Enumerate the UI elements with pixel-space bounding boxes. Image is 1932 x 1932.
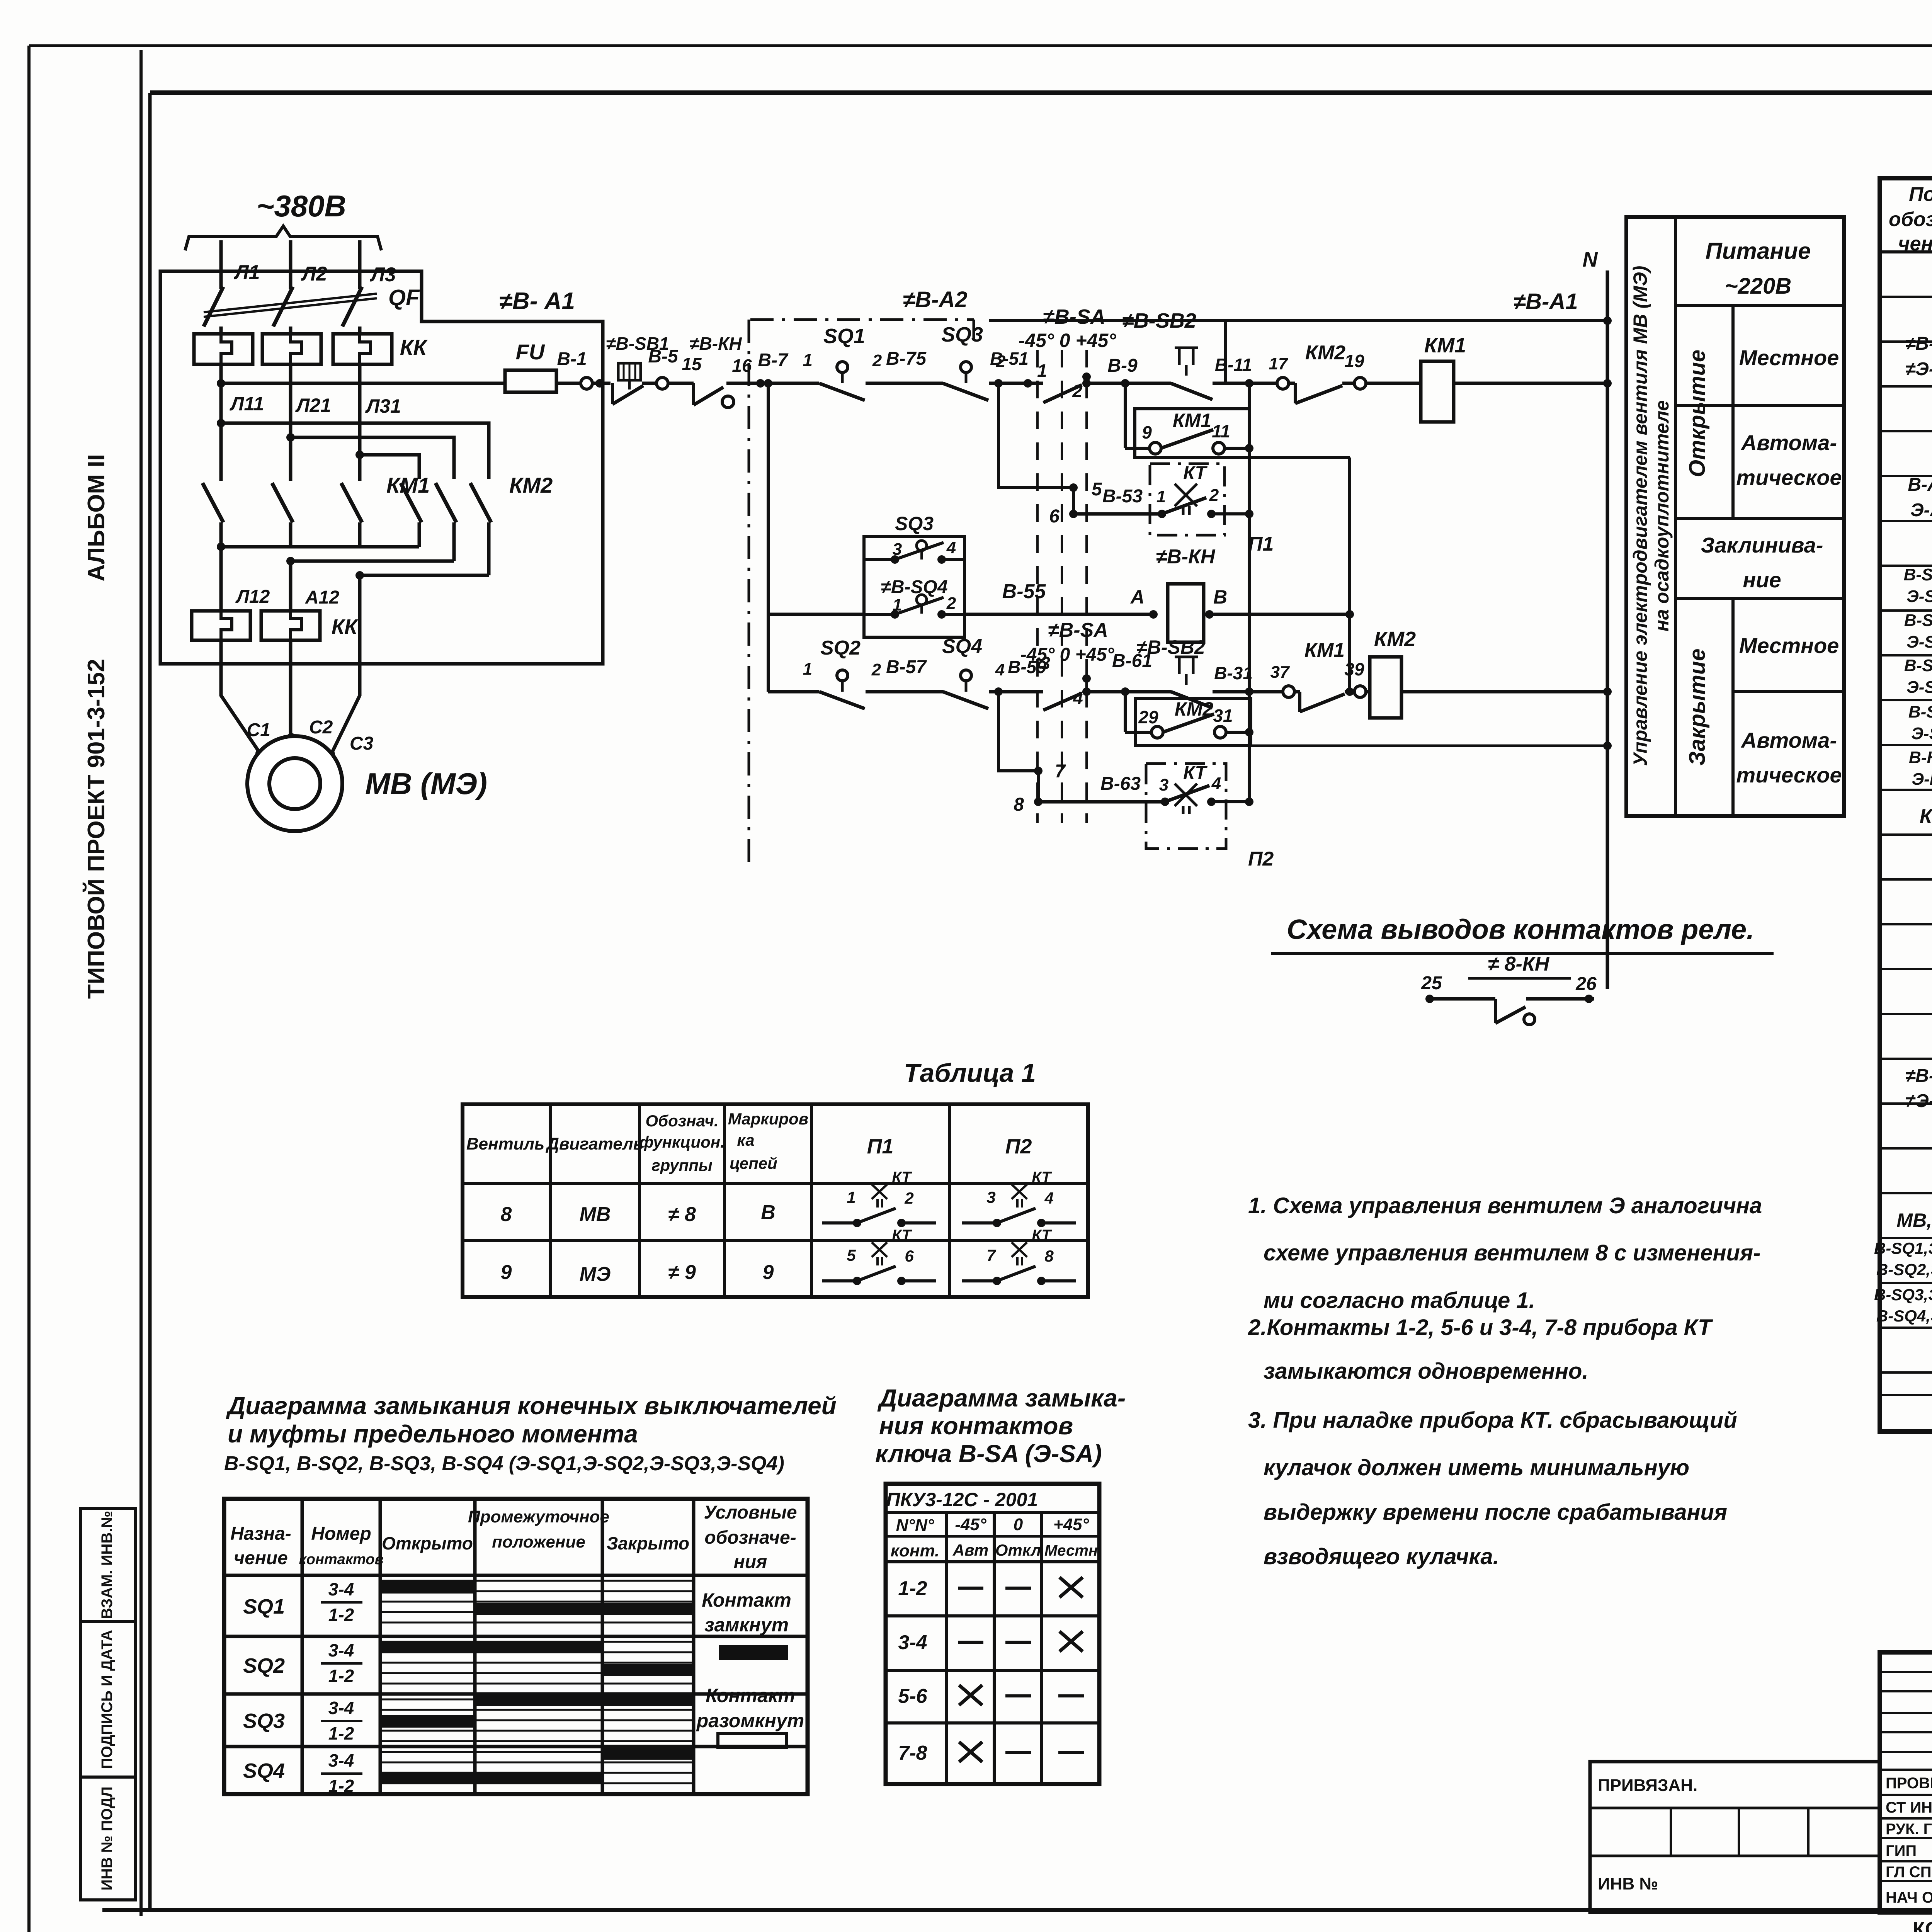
- limit switch SQ1 pin circle: [837, 362, 848, 372]
- wire KM2 contact 3 bottom: [487, 522, 491, 547]
- svg-text:МВ, МЭ: МВ, МЭ: [1896, 1209, 1932, 1231]
- diagram row y4384: [224, 1692, 808, 1696]
- svg-text:В-КН;: В-КН;: [1909, 748, 1932, 767]
- svg-text:ми согласно таблице 1.: ми согласно таблице 1.: [1264, 1288, 1535, 1313]
- svg-text:Диаграмма замыка-: Диаграмма замыка-: [877, 1384, 1126, 1412]
- svg-text:Авт: Авт: [952, 1541, 989, 1559]
- svg-text:8: 8: [1044, 1247, 1054, 1265]
- svg-text:чение: чение: [1898, 233, 1932, 255]
- junction KT contact 1: [1158, 510, 1166, 518]
- KT contact 5-6 cell P1 row2: [822, 1279, 857, 1282]
- pitanie table outer box: [1626, 217, 1844, 816]
- svg-text:3-4: 3-4: [328, 1698, 354, 1718]
- svg-text:ГИП: ГИП: [1886, 1842, 1917, 1859]
- junction 8: [1034, 798, 1043, 806]
- terminal 9 circle: [1150, 442, 1161, 454]
- wire KM2 pole3 to tie3: [487, 547, 491, 575]
- svg-text:ПКУ3-12С - 2001: ПКУ3-12С - 2001: [886, 1489, 1038, 1510]
- junction on rung2: [1345, 687, 1354, 696]
- relay KN pinout contact blade: [1495, 1007, 1526, 1023]
- wire QF pole 2 bottom: [289, 327, 293, 334]
- wire A1 bus segment: [989, 319, 1225, 322]
- wire 7 to 8: [1037, 771, 1040, 802]
- junction tie3 left: [355, 571, 364, 580]
- title block outer: [1880, 1652, 1932, 1912]
- tablitsa1 row y3211: [463, 1239, 1088, 1242]
- component table row y2856: [1880, 1102, 1932, 1105]
- svg-text:-45°: -45°: [955, 1515, 986, 1534]
- sa mark X 7-8: [959, 1742, 982, 1762]
- wire KM1 coil to N rail: [1454, 382, 1607, 385]
- sa mark dash 1-2: [1005, 1587, 1031, 1590]
- pitanie row line zaklin: [1675, 597, 1844, 600]
- dt SQ4 guide line 3: [380, 1782, 694, 1784]
- svg-text:А12: А12: [305, 587, 339, 608]
- junction 5: [1069, 483, 1078, 492]
- margin box podpis i data: [80, 1621, 135, 1777]
- wire V-55 left segment: [768, 613, 864, 616]
- sa row y4182: [886, 1614, 1099, 1617]
- junction B: [1205, 610, 1214, 619]
- svg-text:N°N°: N°N°: [896, 1516, 934, 1535]
- sa mark X 5-6: [959, 1685, 982, 1705]
- svg-text:4: 4: [995, 660, 1005, 679]
- margin box inv n podl: [80, 1777, 135, 1900]
- svg-text:КТ: КТ: [1032, 1227, 1052, 1244]
- terminal 37 circle: [1283, 686, 1294, 697]
- svg-text:В-SB1;: В-SB1;: [1904, 565, 1932, 584]
- junction 7: [1034, 767, 1043, 775]
- svg-text:В-А1,: В-А1,: [1908, 474, 1932, 495]
- svg-text:≠Э-А2: ≠Э-А2: [1905, 1091, 1932, 1111]
- svg-text:цепей: цепей: [730, 1154, 777, 1172]
- wire tie KM1-3 to KM2-3: [360, 574, 489, 577]
- component table row y2972: [1880, 1147, 1932, 1150]
- title block thin row y4377: [1880, 1690, 1932, 1692]
- svg-text:Л2: Л2: [301, 263, 327, 285]
- svg-text:+45°: +45°: [1053, 1515, 1089, 1534]
- relay KN pinout pin circle: [1524, 1014, 1535, 1025]
- circuit breaker QF blade 3: [342, 287, 362, 327]
- wire phase L1 stub: [219, 240, 223, 271]
- pitanie col divider close: [1731, 599, 1735, 816]
- dt SQ2 guide line 0: [380, 1641, 694, 1643]
- svg-text:SQ2: SQ2: [820, 637, 861, 659]
- dt SQ3 closed bar 1-2: [380, 1715, 475, 1728]
- pushbutton SB1 stem: [628, 380, 631, 389]
- sa col x2696: [1040, 1512, 1043, 1784]
- sa header line2: [886, 1535, 1099, 1538]
- dt SQ1 guide line 4: [380, 1622, 694, 1624]
- svg-text:1-2: 1-2: [328, 1776, 354, 1796]
- junction jumper C on L31: [355, 451, 364, 459]
- svg-text:Э-SB1: Э-SB1: [1906, 587, 1932, 606]
- dt SQ3 fraction line: [321, 1720, 362, 1722]
- junction SA exit rung1: [1082, 379, 1091, 388]
- svg-text:3. При наладке прибора КТ. сбр: 3. При наладке прибора КТ. сбрасывающий: [1248, 1408, 1737, 1433]
- svg-text:КТ: КТ: [892, 1169, 912, 1186]
- svg-text:В: В: [761, 1201, 776, 1224]
- svg-text:SQ4: SQ4: [243, 1759, 285, 1782]
- tablitsa1 col x2457: [948, 1104, 951, 1297]
- dt SQ1 guide line 2: [380, 1601, 694, 1603]
- svg-text:39: 39: [1344, 659, 1364, 679]
- KT contact 3-4 cell P2 row1: [962, 1221, 997, 1225]
- svg-text:Закрытие: Закрытие: [1685, 648, 1710, 765]
- wire to KK2 heater2: [289, 561, 293, 611]
- tablitsa1 col x1424: [549, 1104, 552, 1297]
- pitanie row line avt1: [1675, 517, 1844, 520]
- svg-text:≠ 8: ≠ 8: [668, 1203, 696, 1226]
- wire L31 vertical: [358, 364, 362, 481]
- switch SA position column dashed x2748: [1061, 350, 1063, 823]
- svg-text:Л31: Л31: [365, 395, 401, 417]
- limit switch SQ3 blade: [943, 383, 988, 400]
- svg-text:2: 2: [871, 660, 881, 679]
- svg-text:Э-SB2: Э-SB2: [1906, 633, 1932, 651]
- component table row y1232: [1880, 475, 1932, 477]
- sa mark dash 7-8: [1005, 1751, 1031, 1754]
- svg-text:QF: QF: [388, 285, 420, 310]
- svg-text:9: 9: [763, 1261, 774, 1284]
- junction tie2 left: [286, 557, 295, 565]
- svg-text:НАЧ ОТД: НАЧ ОТД: [1886, 1889, 1932, 1906]
- svg-text:Местное: Местное: [1739, 633, 1839, 658]
- svg-text:FU: FU: [516, 340, 545, 364]
- limit switch SQ4 blade: [943, 692, 988, 709]
- svg-text:АЛЬБОМ II: АЛЬБОМ II: [83, 454, 110, 582]
- wire stub to 5: [998, 383, 1073, 488]
- switch SA contact blade rung1: [1043, 385, 1082, 403]
- wire KT P2 exit: [1211, 800, 1249, 803]
- svg-text:2: 2: [904, 1189, 913, 1207]
- contactor KM1 coil: [1421, 361, 1454, 422]
- pushbutton SB2 contact blade: [1171, 383, 1213, 400]
- pitanie row line mestnoe2: [1733, 690, 1844, 693]
- junction P2 exit on vertical: [1245, 798, 1253, 806]
- wire SB1 to V-5: [642, 382, 657, 385]
- contactor KM1 selfhold blade: [1161, 430, 1213, 448]
- relay KN pinout contact lead: [1494, 999, 1497, 1023]
- diagram col x1229: [473, 1499, 477, 1794]
- contactor KM1 main contact 2: [272, 483, 293, 522]
- wire KN vertical to rung2: [1348, 457, 1351, 692]
- component table row y1812: [1880, 699, 1932, 701]
- sa mark dash 5-6: [1005, 1694, 1031, 1697]
- component table row y2392: [1880, 923, 1932, 925]
- sa col x2450: [945, 1512, 948, 1784]
- junction selfhold right: [1245, 444, 1253, 452]
- svg-text:В-7: В-7: [758, 350, 789, 371]
- dt SQ1 guide line 1: [380, 1590, 694, 1592]
- terminal 17 circle: [1277, 378, 1289, 389]
- pitanie table caption divider: [1674, 217, 1677, 816]
- svg-text:Двигатель: Двигатель: [545, 1134, 643, 1153]
- pitanie row line mestnoe1: [1675, 404, 1844, 407]
- thermal relay KK heater 2 box: [262, 334, 321, 364]
- svg-text:Промежуточное: Промежуточное: [468, 1507, 609, 1526]
- junction stub 7 tap: [994, 687, 1003, 696]
- svg-text:П2: П2: [1005, 1135, 1032, 1158]
- cabinet 1Sh outline box: [160, 271, 603, 664]
- terminal 19 circle: [1354, 378, 1366, 389]
- diagram col x1795: [692, 1499, 696, 1794]
- svg-text:5-6: 5-6: [898, 1685, 927, 1708]
- svg-text:≠В-А1: ≠В-А1: [1905, 333, 1932, 354]
- pushbutton SB1 actuator: [618, 363, 641, 380]
- svg-text:ГЛ СП ОТД: ГЛ СП ОТД: [1886, 1864, 1932, 1881]
- title block sig row y4868: [1880, 1880, 1932, 1882]
- terminal V-1 circle: [581, 378, 592, 389]
- svg-text:-45° 0 +45°: -45° 0 +45°: [1019, 330, 1117, 351]
- svg-text:1-2: 1-2: [328, 1605, 354, 1625]
- component table row y1464: [1880, 565, 1932, 567]
- svg-text:выдержку времени после срабаты: выдержку времени после срабатывания: [1264, 1500, 1727, 1525]
- wire KM1 contact 2 bottom: [289, 522, 293, 547]
- svg-text:на осадкоуплотнителе: на осадкоуплотнителе: [1651, 400, 1673, 632]
- svg-text:В-55: В-55: [1002, 580, 1046, 603]
- svg-text:П1: П1: [867, 1135, 894, 1158]
- svg-text:РУК. ГР.: РУК. ГР.: [1886, 1821, 1932, 1838]
- wire control bus from L11 to fuse: [221, 382, 505, 385]
- junction selfhold right rung2 vertical: [1245, 728, 1253, 736]
- contactor KM1 selfhold aux box: [1135, 409, 1249, 457]
- pushbutton SB1 contact blade: [612, 386, 643, 404]
- wire C1 to motor: [221, 640, 260, 753]
- circuit breaker QF blade 2: [273, 287, 293, 327]
- junction KM2 return on N rail: [1603, 687, 1612, 696]
- svg-text:С2: С2: [309, 717, 333, 738]
- svg-text:В-SQ3,Э-SQ3,: В-SQ3,Э-SQ3,: [1874, 1286, 1932, 1304]
- wire stub to 7: [998, 692, 1038, 771]
- svg-text:КОПИРОВАЛ: ЛОГИНОВА: КОПИРОВАЛ: ЛОГИНОВА: [1913, 1918, 1932, 1932]
- svg-text:≠В-SB2: ≠В-SB2: [1122, 309, 1196, 332]
- wire tie KM1-1 to KM2-1: [221, 545, 419, 549]
- sa header line1: [886, 1511, 1099, 1514]
- component table row y768: [1880, 296, 1932, 298]
- drawing frame left line: [148, 93, 152, 1910]
- svg-text:КМ2: КМ2: [1374, 628, 1416, 651]
- svg-text:КТ: КТ: [1183, 763, 1207, 783]
- svg-text:кулачок должен иметь минимальн: кулачок должен иметь минимальную: [1264, 1455, 1689, 1480]
- svg-text:Номер: Номер: [311, 1524, 371, 1544]
- pushbutton SB2 blade rung2: [1171, 692, 1213, 708]
- wire KT P1 exit: [1211, 512, 1249, 515]
- svg-text:6: 6: [1049, 506, 1060, 527]
- dt SQ3 guide line 2: [380, 1719, 694, 1721]
- svg-text:≠В-КН: ≠В-КН: [689, 333, 742, 354]
- svg-text:11: 11: [1212, 421, 1230, 441]
- wire V-5 to KN contact: [668, 382, 694, 385]
- svg-text:замыкаются одновременно.: замыкаются одновременно.: [1264, 1359, 1588, 1384]
- title block thin row y4483: [1880, 1731, 1932, 1733]
- contactor KM2 selfhold aux box: [1136, 699, 1251, 746]
- svg-text:3-4: 3-4: [328, 1750, 354, 1770]
- wire fuse to SB1: [556, 382, 611, 385]
- component table header bottom: [1880, 250, 1932, 253]
- dt SQ1 fraction line: [321, 1601, 362, 1604]
- svg-text:В-SB2,: В-SB2,: [1904, 611, 1932, 630]
- junction SA column lower: [1082, 674, 1091, 683]
- svg-text:0: 0: [1014, 1515, 1023, 1534]
- svg-text:≠ 9: ≠ 9: [668, 1261, 696, 1284]
- svg-text:3-4: 3-4: [328, 1579, 354, 1599]
- svg-text:SQ2: SQ2: [243, 1654, 285, 1677]
- KT contact blade P2: [1165, 786, 1209, 802]
- tablitsa1 col x2100: [810, 1104, 813, 1297]
- contactor KM2 coil: [1370, 657, 1401, 718]
- svg-text:SQ3: SQ3: [941, 323, 983, 346]
- svg-text:Л11: Л11: [230, 393, 264, 415]
- svg-text:1: 1: [803, 350, 813, 370]
- fuse FU box: [505, 370, 556, 392]
- cabinet boundary dash-dot vertical: [748, 320, 750, 869]
- svg-text:В-31: В-31: [1214, 663, 1253, 683]
- dt SQ1 closed bar 3-4: [380, 1581, 475, 1594]
- junction jumper A on L11: [217, 419, 225, 427]
- svg-text:В-SQ2,Э-SQ2: В-SQ2,Э-SQ2: [1876, 1260, 1932, 1279]
- svg-text:1-2: 1-2: [328, 1723, 354, 1743]
- wire KM2 contact 2 bottom: [452, 522, 456, 547]
- component table row y2508: [1880, 968, 1932, 970]
- dt SQ2 fraction line: [321, 1662, 362, 1665]
- contactor KM1 aux NC blade rung2: [1300, 694, 1345, 712]
- KT pneumatic actuator symbol P1: [1175, 484, 1197, 515]
- dt SQ2 guide line 1: [380, 1651, 694, 1653]
- svg-text:П1: П1: [1248, 533, 1274, 555]
- title block sig row y4645: [1880, 1794, 1932, 1796]
- junction jumper B on L21: [286, 433, 295, 442]
- drawing frame top line: [150, 90, 1932, 95]
- svg-text:КТ: КТ: [892, 1227, 912, 1244]
- svg-text:Э-SA: Э-SA: [1911, 724, 1932, 743]
- svg-text:8: 8: [501, 1203, 512, 1226]
- junction KT contact 3: [1161, 798, 1169, 806]
- wire A2 feed down to pushbutton bus: [1224, 321, 1227, 383]
- svg-text:4: 4: [1073, 688, 1083, 708]
- relay KN contact pin circle: [722, 396, 734, 408]
- svg-text:37: 37: [1270, 663, 1290, 682]
- svg-text:~380В: ~380В: [257, 189, 346, 223]
- thermal relay KK2 heater2 element: [291, 611, 301, 640]
- svg-text:положение: положение: [492, 1532, 585, 1551]
- wire V-55 to KN relay: [964, 613, 1153, 616]
- limit switch SQ4 blade in box: [895, 597, 944, 614]
- svg-text:≠В-SA: ≠В-SA: [1043, 305, 1105, 328]
- sa mark dash 1-2: [958, 1587, 983, 1590]
- svg-text:SQ4: SQ4: [942, 635, 982, 658]
- svg-text:чение: чение: [234, 1548, 288, 1568]
- svg-text:контактов: контактов: [299, 1551, 383, 1568]
- wire KM2 coil to N rail: [1401, 690, 1607, 694]
- wire C3 to motor: [332, 641, 360, 753]
- switch SA contact blade rung2: [1043, 693, 1082, 710]
- component table row y3436: [1880, 1327, 1932, 1329]
- svg-text:взводящего кулачка.: взводящего кулачка.: [1264, 1544, 1499, 1569]
- svg-text:Питание: Питание: [1706, 238, 1811, 264]
- svg-text:Маркиров: Маркиров: [728, 1110, 808, 1128]
- svg-text:Э-SB3: Э-SB3: [1906, 678, 1932, 697]
- svg-text:МВ: МВ: [580, 1203, 611, 1226]
- wire V-63 line: [1038, 800, 1165, 804]
- terminal box P2 dash-dot outline: [1146, 764, 1226, 849]
- diagram table outer: [224, 1499, 808, 1794]
- dt SQ3 guide line 3: [380, 1730, 694, 1732]
- dt SQ1 guide line 3: [380, 1611, 694, 1613]
- pushbutton SB2 actuator: [1175, 348, 1198, 376]
- svg-text:В-1: В-1: [557, 349, 587, 369]
- dt SQ2 closed bar 3-4: [380, 1641, 602, 1653]
- component table row y1580: [1880, 609, 1932, 612]
- title block sig row y4757: [1880, 1837, 1932, 1839]
- dt legend closed bar: [719, 1645, 788, 1660]
- limit switch box V-SQ4: [864, 537, 964, 637]
- svg-text:SQ1: SQ1: [243, 1595, 285, 1618]
- svg-text:≠В-SQ4: ≠В-SQ4: [881, 577, 947, 597]
- wire SA to SB2: [1087, 382, 1171, 385]
- contactor KM2 main contact 2: [435, 483, 456, 522]
- svg-text:ИНВ №: ИНВ №: [1598, 1874, 1658, 1893]
- svg-text:разомкнут: разомкнут: [696, 1710, 804, 1731]
- svg-text:КТ: КТ: [1920, 805, 1932, 828]
- component table row y3204: [1880, 1237, 1932, 1239]
- component table row y652: [1880, 251, 1932, 253]
- svg-text:7-8: 7-8: [898, 1742, 927, 1764]
- wire rung2 left: [768, 690, 819, 694]
- component table row y2044: [1880, 789, 1932, 791]
- svg-text:В-SA;: В-SA;: [1908, 702, 1932, 721]
- svg-text:конт.: конт.: [891, 1541, 940, 1560]
- privyazan col1: [1670, 1808, 1672, 1856]
- wire SQ3 to SA: [989, 382, 1043, 385]
- wire to KM1 coil: [1366, 382, 1421, 385]
- component table row y3552: [1880, 1371, 1932, 1374]
- svg-text:≠В-А2: ≠В-А2: [903, 287, 967, 312]
- svg-text:29: 29: [1138, 707, 1158, 727]
- svg-text:2.Контакты 1-2, 5-6 и 3-4, 7-8: 2.Контакты 1-2, 5-6 и 3-4, 7-8 прибора К…: [1248, 1315, 1713, 1340]
- junction selfhold right rung1: [1245, 379, 1253, 388]
- wire phase L2 stub: [289, 240, 293, 271]
- svg-text:ВЗАМ. ИНВ.№: ВЗАМ. ИНВ.№: [99, 1511, 116, 1619]
- svg-text:ПРОВЕР: ПРОВЕР: [1886, 1775, 1932, 1792]
- wire QF pole 1 bottom: [219, 327, 223, 334]
- svg-text:1: 1: [803, 660, 812, 679]
- limit switch SQ3 bypass pin: [917, 541, 927, 551]
- wire SQ4 to SA rung2: [989, 690, 1043, 694]
- sa row y4617: [886, 1782, 1099, 1786]
- svg-text:А: А: [1130, 586, 1145, 608]
- component table row y1348: [1880, 520, 1932, 522]
- wire QF pole 3 bottom: [358, 327, 362, 334]
- limit switch SQ1 stem: [841, 372, 844, 383]
- svg-text:≠В- А1: ≠В- А1: [499, 288, 575, 315]
- dt legend open bar: [718, 1733, 787, 1747]
- junction A: [1149, 610, 1158, 619]
- svg-text:9: 9: [501, 1261, 512, 1284]
- svg-text:31: 31: [1213, 706, 1233, 726]
- limit switch SQ3 stem: [965, 372, 968, 383]
- svg-text:Поз: Поз: [1909, 183, 1932, 206]
- dt SQ4 guide line 0: [380, 1751, 694, 1753]
- wire selfhold bottom to KN vertical: [1249, 456, 1350, 459]
- svg-text:Диаграмма замыкания конечных в: Диаграмма замыкания конечных выключателе…: [226, 1392, 837, 1420]
- wire QF pole 1 top: [219, 271, 223, 289]
- svg-text:Л12: Л12: [235, 587, 270, 607]
- svg-text:ключа В-SA (Э-SА): ключа В-SA (Э-SА): [875, 1440, 1102, 1468]
- wire bypass top right: [942, 558, 964, 561]
- contactor KM1 main contact 3: [341, 483, 362, 522]
- wire KN relay to interlock vertical: [1204, 613, 1350, 616]
